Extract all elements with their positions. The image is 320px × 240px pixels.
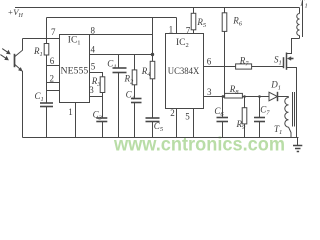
resistor R8 [225, 93, 243, 98]
pin 2 label UC384X [170, 108, 175, 118]
resistor R2 [132, 55, 137, 99]
resistor R3 [100, 77, 105, 93]
svg-text:NE555: NE555 [61, 66, 89, 77]
phototransistor VT1 [0, 39, 22, 138]
capacitor C2 [113, 55, 127, 138]
pin 7 label UC384X [186, 26, 191, 36]
wire pin3 NE555 [90, 93, 103, 119]
pin 5 label NE555 [91, 62, 96, 72]
svg-text:4: 4 [91, 45, 96, 55]
pin 6 label NE555 [50, 56, 55, 66]
capacitor C4 value label [126, 90, 136, 102]
transformer T1 bottom label [274, 124, 282, 136]
capacitor C3 [96, 118, 107, 138]
resistor R5 [191, 8, 196, 34]
wire second supply rail [47, 17, 177, 19]
pin 2 label NE555 [50, 73, 55, 83]
wire pin2 stub UC384X [176, 109, 178, 138]
op-amp U1 part number NE555 [61, 66, 89, 77]
svg-text:2: 2 [170, 108, 175, 118]
wire pin1 stub [75, 103, 77, 138]
node junction dot C7/pin3 [258, 95, 261, 98]
transistor Q1 (MOSFET S1) [284, 39, 300, 138]
op-amp U1 (NE555 timer IC1 box) [60, 35, 90, 103]
diode D1 [269, 92, 278, 101]
node junction dot R6/pin3 [222, 95, 225, 98]
svg-text:8: 8 [91, 26, 96, 36]
svg-text:1: 1 [169, 25, 174, 35]
capacitor C7 [254, 97, 265, 138]
ground (bottom bus wire) [23, 137, 299, 139]
svg-text:6: 6 [50, 56, 55, 66]
pin 8 label NE555 [91, 26, 96, 36]
op-amp U2 part number UC384X [168, 66, 200, 77]
diode D1 value label [270, 79, 281, 91]
wire R4 feed from rails [152, 18, 154, 62]
resistor R2 value label [124, 74, 135, 86]
transistor S1 value label [274, 54, 282, 66]
node +VH supply rail (top bus) [15, 7, 300, 9]
capacitor C7 value label [260, 105, 270, 117]
wire pin4 [90, 54, 153, 56]
transformer T1 primary winding [297, 8, 300, 39]
pin 5 label UC384X [185, 112, 190, 122]
resistor R4 value label [141, 66, 152, 78]
capacitor C1 [40, 103, 53, 138]
capacitor C4 [131, 99, 142, 138]
svg-text:2: 2 [50, 73, 55, 83]
resistor R9 value label [236, 119, 247, 131]
resistor R3 value label [91, 76, 102, 88]
capacitor C5 [146, 118, 160, 138]
pin 3 label UC384X [207, 87, 212, 97]
wire R4 to C5 [152, 79, 154, 118]
wire pin7/collector node [23, 18, 60, 44]
wire pin3 feedback [204, 96, 289, 98]
svg-text:6: 6 [207, 57, 212, 67]
svg-text:3: 3 [207, 87, 212, 97]
pin 3 label NE555 [89, 85, 94, 95]
svg-text:5: 5 [91, 62, 96, 72]
op-amp U1 name IC1 [68, 35, 81, 46]
op-amp U2 name IC2 [176, 38, 189, 49]
ground symbol [293, 138, 302, 152]
svg-text:1: 1 [68, 107, 73, 117]
transformer T1 top label [300, 0, 308, 9]
node junction dot pin4/R4 [151, 53, 154, 56]
transformer T1 secondary winding [285, 97, 291, 138]
capacitor C1 value label [35, 91, 44, 103]
svg-text:3: 3 [89, 85, 94, 95]
svg-text:7: 7 [186, 26, 191, 36]
wire R1 to pin6/pin2 ladder [47, 55, 60, 103]
pin 1 label UC384X [169, 25, 174, 35]
wire pin5 stub UC384X [193, 109, 195, 138]
pin 4 label NE555 [91, 45, 96, 55]
node +VH label [8, 7, 24, 19]
resistor R5 value label [196, 17, 207, 29]
wire pin5 [90, 73, 103, 77]
wire pin6 output [204, 66, 284, 68]
svg-text:5: 5 [185, 112, 190, 122]
resistor R9 [242, 97, 247, 138]
pin 7 label NE555 [51, 27, 56, 37]
node junction dot R9/pin3 [243, 95, 246, 98]
watermark text [113, 135, 285, 156]
svg-text:7: 7 [51, 27, 56, 37]
capacitor C6 value label [214, 106, 224, 118]
capacitor C3 value label [93, 110, 103, 122]
wire pin8 [90, 34, 153, 36]
resistor R7 value label [239, 55, 250, 67]
resistor R1 value label [33, 46, 43, 58]
capacitor C6 [217, 97, 229, 138]
pin 1 label NE555 [68, 107, 73, 117]
capacitor C5 value label [154, 121, 164, 133]
capacitor C2 value label [107, 58, 116, 70]
svg-text:UC384X: UC384X [168, 66, 200, 77]
resistor R8 value label [229, 84, 240, 96]
wire pin1 stub UC384X [176, 18, 178, 34]
pin 6 label UC384X [207, 57, 212, 67]
transformer T1 core [293, 1, 303, 127]
resistor R7 [236, 64, 252, 69]
resistor R1 [44, 44, 49, 56]
resistor R6 value label [232, 16, 243, 28]
resistor R6 [222, 8, 227, 97]
resistor R4 [150, 61, 155, 79]
op-amp U2 (UC384X controller IC2 box) [166, 34, 204, 109]
